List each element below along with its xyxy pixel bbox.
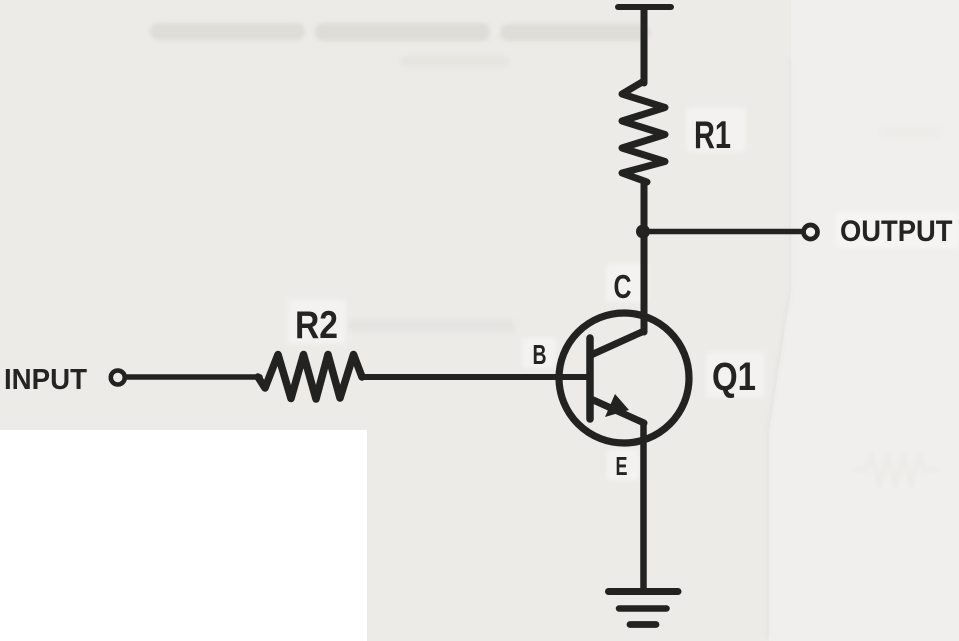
svg-text:E: E [616,451,628,481]
svg-text:B: B [533,339,547,370]
node output junction [636,225,650,239]
transistor Q1 circle [559,313,689,443]
power rail (top supply bar) [618,4,671,10]
base wire [363,374,588,380]
svg-text:Q1: Q1 [712,355,756,399]
svg-text:C: C [614,268,632,305]
emitter diagonal [591,399,644,423]
ground bar 1 [609,588,679,595]
ground bar 3 [630,621,656,628]
wire R1 to collector [641,181,648,332]
base bar [586,338,594,419]
terminal INPUT [111,371,125,385]
svg-text:R2: R2 [295,304,338,347]
resistor R2 [258,355,362,400]
wire INPUT to R2 [127,374,260,380]
wire rail to R1 [641,8,648,83]
svg-text:OUTPUT: OUTPUT [840,215,953,248]
ground bar 2 [619,605,667,612]
white paste-up rectangle [0,430,367,641]
terminal OUTPUT [804,225,818,239]
resistor R1 [622,81,665,182]
wire node to OUTPUT terminal [643,229,801,235]
emitter arrow [605,394,629,417]
lighter right-side paper tone [769,0,959,641]
svg-text:INPUT: INPUT [4,364,87,396]
collector diagonal [591,331,644,355]
svg-text:R1: R1 [694,114,731,157]
emitter wire [640,423,647,590]
paste-up light patches [288,108,958,480]
